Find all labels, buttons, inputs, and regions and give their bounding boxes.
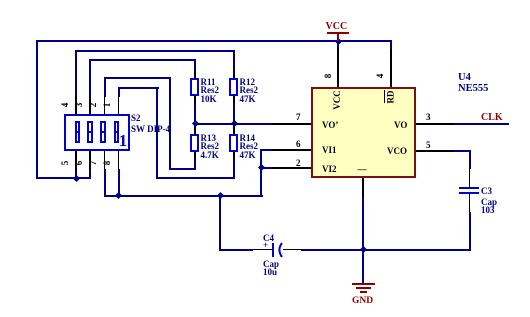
- junction pin2/pin6 tie: [257, 164, 264, 171]
- U4 designator: [458, 72, 471, 83]
- wire DIP pins 5,6 bottom blue stubs: [75, 169, 77, 179]
- U4 pin number 8 (rotated): [323, 66, 343, 86]
- R13 type label: [201, 141, 220, 151]
- wire DIP pin4 top vertical: [75, 50, 77, 97]
- U4 pin number 7: [296, 112, 301, 122]
- C3 type label: [481, 197, 497, 207]
- wire C3 bottom vertical blue: [469, 212, 471, 251]
- U4 pin stub 3: [416, 123, 455, 125]
- C4 value 10u: [263, 267, 277, 277]
- S2 pin number 2: [88, 95, 108, 115]
- U4 pin stub 5: [416, 150, 455, 152]
- U4 pin label VCC (rotated): [327, 90, 347, 110]
- S2 switch element 3: [100, 121, 106, 144]
- U4 pin stub 6: [272, 149, 311, 151]
- C4 type label: [263, 259, 279, 269]
- R11 pin stubs: [194, 71, 196, 78]
- wire pin6 blue stub: [260, 149, 272, 151]
- junction R12 bottom / pin7 net: [230, 120, 237, 127]
- wire C4 right horizontal to C3 bottom: [301, 249, 471, 251]
- junction C4 branch: [216, 192, 223, 199]
- R12 pin stubs: [233, 71, 235, 78]
- C3 top plate: [459, 187, 479, 189]
- R14 type label: [240, 141, 259, 151]
- wire pin5 to C3 blue: [454, 150, 471, 152]
- wire horizontal y168 to R13 bottom: [169, 168, 196, 170]
- wire R11 bottom lead: [194, 102, 196, 124]
- U4 pin stub 4: [390, 49, 392, 87]
- U4 pin stub 8: [337, 49, 339, 87]
- resistor R12 body: [229, 78, 238, 96]
- wire vertical x261 up to pin6/pin2: [260, 149, 262, 197]
- wire GND vertical blue part: [362, 197, 364, 284]
- wire R13 top lead: [194, 123, 196, 129]
- op-amp-style IC U4 NE555 body: [311, 87, 416, 178]
- C4 right curved plate: [274, 242, 286, 258]
- wire horizontal y88 pin1 right: [118, 87, 159, 89]
- wire bottom-left horizontal to DIP pins 5,6: [36, 177, 91, 179]
- wire pin4 blue stub: [390, 40, 392, 49]
- junction GND on bottom rail: [359, 246, 366, 253]
- C3 designator: [481, 186, 492, 196]
- U4 pin number 4 (rotated): [375, 66, 395, 86]
- S2 pin number 6: [74, 153, 94, 173]
- R13 value 4.7K: [201, 150, 219, 160]
- junction DIP pin8: [115, 192, 122, 199]
- U4 part number NE555: [458, 83, 488, 94]
- U4 pin number 3: [426, 112, 431, 122]
- R14 value 47K: [240, 150, 256, 160]
- wire pin3 CLK blue: [454, 123, 509, 125]
- wire R14 bottom lead blue: [233, 157, 235, 178]
- wire top rail VCC to pin4: [36, 40, 392, 42]
- U4 pin number 2: [296, 158, 301, 168]
- S2 switch element 1: [75, 121, 81, 144]
- wire C3 top vertical blue: [469, 150, 471, 169]
- C3 pin stubs: [469, 168, 471, 187]
- U4 pin stub 1 (GND): [362, 178, 364, 197]
- R14 designator: [240, 133, 256, 143]
- C4 left plate: [272, 243, 274, 257]
- C3 value 103: [481, 205, 495, 215]
- wire R11 top lead blue: [194, 59, 196, 72]
- resistor R11 body: [190, 78, 199, 96]
- wire R12 top lead blue: [233, 50, 235, 73]
- R12 type label: [240, 85, 259, 95]
- wire DIP pins 7,8 bottom verticals: [104, 169, 106, 197]
- switch S2 body: [64, 114, 130, 151]
- wire horizontal y60 pin3 to R11: [89, 59, 196, 61]
- wire pin8 blue stub: [337, 40, 339, 49]
- ground symbol GND: [352, 283, 375, 285]
- wire horizontal y195 pins7,8 to x261: [104, 195, 263, 197]
- S2 pin number 7: [88, 153, 108, 173]
- U4 pin label VO (output): [394, 120, 407, 130]
- junction DIP pin5: [72, 175, 79, 182]
- S2 orientation mark 1: [117, 131, 129, 148]
- U4 pin stub 2: [272, 167, 311, 169]
- C3 bottom plate: [459, 192, 479, 194]
- wire DIP pin1 top vertical: [118, 87, 120, 97]
- power VCC symbol: [326, 21, 348, 32]
- junction R11 bottom / pin7 net: [191, 120, 198, 127]
- S2 pin stubs bottom (black): [75, 151, 77, 169]
- wire DIP pin3 top vertical: [89, 59, 91, 97]
- U4 pin label RD (rotated, active low): [380, 87, 400, 107]
- wire R14 top lead: [233, 123, 235, 129]
- S2 comment SW DIP-4: [131, 124, 170, 134]
- R11 type label: [201, 85, 220, 95]
- wire pin2 blue stub: [260, 167, 272, 169]
- R11 designator: [201, 77, 216, 87]
- S2 switch element 2: [87, 121, 93, 144]
- wire pin7 net horizontal y123.5: [194, 123, 272, 125]
- S2 switch element 4: [114, 121, 120, 144]
- C4 designator: [263, 233, 274, 243]
- U4 pin number 6: [296, 139, 301, 149]
- S2 pin number 4: [60, 95, 80, 115]
- S2 pin number 3: [74, 95, 94, 115]
- wire DIP pin2 top vertical: [104, 77, 106, 97]
- wire vertical x169 down: [169, 77, 171, 170]
- R13 pin stubs: [194, 127, 196, 134]
- S2 pin number 8: [102, 153, 122, 173]
- net label CLK: [481, 112, 503, 123]
- S2 pin number 1: [102, 95, 122, 115]
- junction at VCC / pin8: [334, 38, 341, 45]
- R14 pin stubs: [233, 127, 235, 134]
- U4 pin label VI1: [322, 145, 337, 155]
- wire vertical x157 down: [156, 87, 158, 178]
- wire horizontal y177 to R14 bottom: [156, 177, 235, 179]
- wire R12 bottom lead: [233, 102, 235, 124]
- U4 pin label GND dash: [358, 164, 367, 174]
- wire vertical x220 down to C4: [219, 195, 221, 251]
- wire C4 left horizontal: [219, 249, 253, 251]
- U4 pin stub 7: [272, 123, 311, 125]
- R13 designator: [201, 133, 217, 143]
- wire horizontal y78 pin2 right: [104, 77, 171, 79]
- wire left outer vertical: [36, 40, 38, 179]
- U4 pin number 5: [426, 140, 431, 150]
- resistor R14 body: [229, 134, 238, 152]
- C4 plus sign: [263, 240, 268, 250]
- R12 designator: [240, 77, 256, 87]
- resistor R13 body: [190, 134, 199, 152]
- S2 pin number 5: [60, 153, 80, 173]
- C4 pin stubs: [253, 249, 272, 251]
- wire R13 bottom lead blue: [194, 157, 196, 169]
- S2 designator: [131, 113, 141, 123]
- S2 pin stubs top (black): [75, 96, 77, 114]
- U4 pin label VO' (discharge): [322, 120, 338, 130]
- wire horizontal y51 pin4 to R12: [75, 50, 235, 52]
- R12 value 47K: [240, 94, 256, 104]
- R11 value 10K: [201, 94, 217, 104]
- U4 pin label VI2: [322, 164, 337, 174]
- U4 pin label VCO: [387, 146, 407, 156]
